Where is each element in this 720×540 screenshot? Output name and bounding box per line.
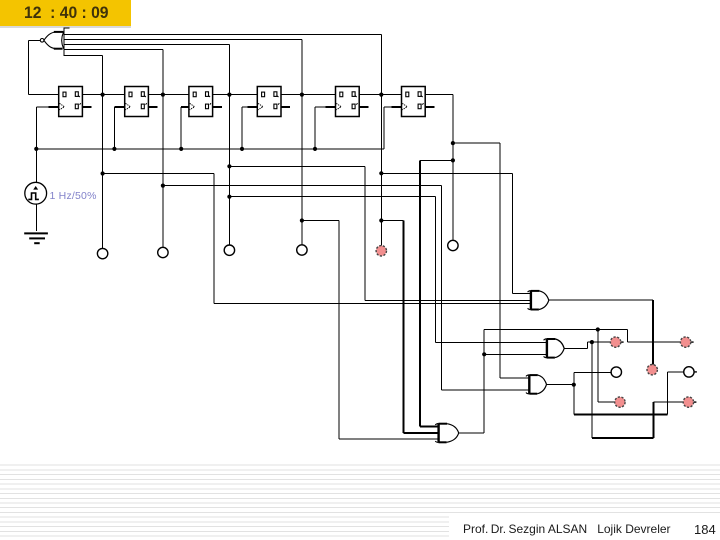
striped slide-template footer background xyxy=(0,461,720,540)
wire OR1 output xyxy=(549,300,653,301)
wire Q5 decode to OR3 xyxy=(404,432,439,434)
wire Q6 out xyxy=(425,94,453,95)
wire clock column U6 xyxy=(384,107,385,149)
wire Q3 decode run B xyxy=(229,196,435,197)
OR gate U8 xyxy=(528,291,549,310)
wire clock bus xyxy=(36,148,384,149)
OR gate U11 xyxy=(526,375,546,394)
wire OR2 branch up column xyxy=(653,402,655,438)
wire OR4 to LED E xyxy=(667,371,683,372)
wire Q2 decode to OR4 xyxy=(442,389,530,390)
wire Q2 to U3 xyxy=(148,94,189,95)
wire Q4 to U5 xyxy=(281,94,336,95)
wire OR3 branch to LED F xyxy=(598,402,615,403)
flip-flop U3 ~Q stub xyxy=(213,106,222,108)
wire U6 clock xyxy=(384,106,392,107)
wire Q1 to U2 xyxy=(82,94,124,95)
wire NOR input 4 (from Q2 tap) xyxy=(64,49,164,50)
simulation time yellow box xyxy=(0,0,131,26)
wire Q6 decode to OR3 xyxy=(420,426,438,428)
wire OR3 output column xyxy=(484,330,485,434)
wire Q2 decode column xyxy=(441,186,442,390)
wire Q3 to U4 xyxy=(213,94,258,95)
wire NOR output to corner xyxy=(28,40,40,41)
wire clock column U2 xyxy=(114,107,115,149)
wire Q5 decode column A xyxy=(403,221,405,433)
ground symbol xyxy=(24,233,48,243)
wire OR1 output to LED D xyxy=(652,300,654,364)
wire OR4 branch down xyxy=(573,385,574,415)
wire NOR input 3 (from Q3 tap) xyxy=(64,44,230,45)
junction OR4 output branch xyxy=(572,383,576,387)
wire Q6 decode run B xyxy=(420,160,453,161)
wire U5 clock xyxy=(315,106,326,107)
wire clock column U4 xyxy=(242,107,243,149)
wire OR4 branch to LED C xyxy=(574,372,611,373)
junction Q6 tap B xyxy=(451,158,455,162)
wire OR2 branch column xyxy=(591,342,592,438)
flip-flop U2 xyxy=(125,87,149,117)
wire OR2 output jog up xyxy=(587,342,588,348)
wire OR2 branch bottom run xyxy=(592,437,654,439)
footer page number 184 xyxy=(694,522,716,537)
wire OR3 output xyxy=(459,433,485,434)
wire OR3 to LED B xyxy=(627,342,680,343)
probe X3 xyxy=(224,245,234,255)
wire OR4 output xyxy=(547,384,574,385)
wire Q1 decode run xyxy=(103,173,215,174)
junction Q6 tap A xyxy=(451,141,455,145)
wire Q2 decode run xyxy=(163,185,442,186)
junction OR3 output branch xyxy=(482,352,486,356)
wire U4 clock xyxy=(242,106,247,107)
wire source to clock bus xyxy=(36,149,37,182)
wire U6 clock stub xyxy=(392,106,402,108)
wire Q6 decode to OR4 xyxy=(500,378,529,379)
wire Q5 decode to OR1 xyxy=(512,293,530,294)
OR gate U10 xyxy=(435,423,458,442)
footer credit text xyxy=(463,522,673,536)
wire clock column U5 xyxy=(315,107,316,149)
clock source V1 xyxy=(25,182,47,204)
wire OR2 output xyxy=(564,348,587,349)
clock source frequency label 1 Hz/50% xyxy=(50,190,97,202)
wire Q4 tap column xyxy=(301,39,302,244)
flip-flop U5 xyxy=(336,87,360,117)
wire Q3 decode to OR2 xyxy=(436,342,547,343)
wire Q3 tap column xyxy=(229,44,230,245)
probe X10 (lit) xyxy=(647,365,657,375)
flip-flop U4 ~Q stub xyxy=(281,106,290,108)
junction Q3 decode tap A xyxy=(227,164,231,168)
wire OR3 branch to LED F column xyxy=(597,330,598,403)
wire Q5 tap column xyxy=(381,34,382,245)
wire Q1 decode to OR1 xyxy=(214,303,530,304)
junction OR3 top branch xyxy=(596,327,600,331)
NOR gate U7 (mirrored, 6-input) xyxy=(40,32,63,49)
junction Q4 xyxy=(300,93,304,97)
wire U1 clock xyxy=(36,106,48,107)
probe X12 (lit) xyxy=(615,397,625,407)
wire OR4 up to LED E column xyxy=(667,372,668,415)
junction Q2 xyxy=(161,93,165,97)
wire Q5 decode column B xyxy=(512,173,513,293)
wire OR2 output to LED A xyxy=(587,342,610,343)
probe X11 xyxy=(684,367,697,377)
junction clock U3 xyxy=(179,147,183,151)
flip-flop U5 ~Q stub xyxy=(359,106,368,108)
wire source to ground xyxy=(36,204,37,231)
wire Q4 decode to OR3 xyxy=(339,438,439,439)
junction Q1 decode tap xyxy=(101,171,105,175)
probe X1 xyxy=(97,248,107,258)
wire Q6 decode column A xyxy=(500,143,501,378)
probe X4 xyxy=(297,245,307,255)
wire OR4 bottom run xyxy=(574,413,668,415)
wire clock column U1 xyxy=(36,107,37,149)
NOR unconnected stub pin xyxy=(64,28,70,29)
flip-flop U1 xyxy=(59,87,83,117)
junction clock U5 xyxy=(313,147,317,151)
wire Q3 decode column B xyxy=(435,197,436,343)
NOR input pin line xyxy=(64,27,65,56)
simulation time text 12:40:09 xyxy=(24,4,109,23)
probe X7 (lit) xyxy=(610,337,623,347)
wire Q4 decode column xyxy=(338,221,339,439)
junction Q3 decode tap B xyxy=(227,195,231,199)
wire OR3 output top run xyxy=(484,329,627,330)
junction clock source xyxy=(34,147,38,151)
wire Q1 tap column xyxy=(102,55,103,248)
wire Q6 column xyxy=(452,95,453,241)
wire OR3 branch to OR2 xyxy=(484,354,547,355)
wire U2 clock stub xyxy=(114,106,124,108)
wire Q3 decode to OR1 xyxy=(365,300,530,301)
wire U3 clock stub xyxy=(181,106,189,108)
wire U1 clock stub xyxy=(49,106,59,108)
wire Q3 decode column A xyxy=(365,166,366,300)
wire feedback to FF1 J input xyxy=(28,94,58,95)
wire feedback vertical xyxy=(28,40,29,94)
flip-flop U3 xyxy=(189,87,213,117)
wire Q5 decode run B xyxy=(381,173,512,174)
flip-flop U6 xyxy=(402,87,426,117)
flip-flop U4 xyxy=(257,87,281,117)
junction Q5 decode tap A xyxy=(379,218,383,222)
flip-flop U2 ~Q stub xyxy=(148,106,157,108)
junction Q1 xyxy=(101,93,105,97)
probe X9 xyxy=(611,367,621,377)
wire NOR input 2 (from Q4 tap) xyxy=(64,39,302,40)
wire U5 clock stub xyxy=(326,106,336,108)
probe X8 (lit) xyxy=(680,337,693,347)
wire NOR input 1 (from Q5 tap) xyxy=(64,34,382,35)
wire Q6 decode column B xyxy=(419,160,421,426)
flip-flop U1 ~Q stub xyxy=(82,106,91,108)
probe X6 xyxy=(448,240,458,250)
junction clock U2 xyxy=(112,147,116,151)
junction Q2 decode tap xyxy=(161,184,165,188)
junction Q5 xyxy=(379,93,383,97)
junction OR2 output branch xyxy=(590,340,594,344)
wire OR3 run corner down xyxy=(627,330,628,343)
wire Q5 to U6 xyxy=(359,94,401,95)
wire Q6 decode run A xyxy=(453,143,500,144)
junction Q4 decode tap xyxy=(300,218,304,222)
wire Q1 decode column xyxy=(214,174,215,304)
junction clock U4 xyxy=(240,147,244,151)
wire Q2 tap column xyxy=(163,49,164,247)
wire clock column U3 xyxy=(181,107,182,149)
wire Q4 decode run xyxy=(302,220,339,221)
wire Q3 decode run A xyxy=(229,166,365,167)
wire Q5 decode run A xyxy=(381,220,403,221)
probe X2 xyxy=(158,247,168,257)
junction Q5 decode tap B xyxy=(379,171,383,175)
wire U4 clock stub xyxy=(247,106,257,108)
wire OR2 branch to LED G xyxy=(654,402,684,403)
wire NOR input 5 (from Q1 tap) xyxy=(64,55,103,56)
junction Q3 xyxy=(227,93,231,97)
white cover under footer text xyxy=(449,513,720,540)
flip-flop U6 ~Q stub xyxy=(425,106,434,108)
probe X13 (lit) xyxy=(683,397,696,407)
OR gate U9 xyxy=(544,339,565,358)
wire OR4 branch up xyxy=(574,372,575,384)
probe X5 (lit) xyxy=(376,246,386,256)
